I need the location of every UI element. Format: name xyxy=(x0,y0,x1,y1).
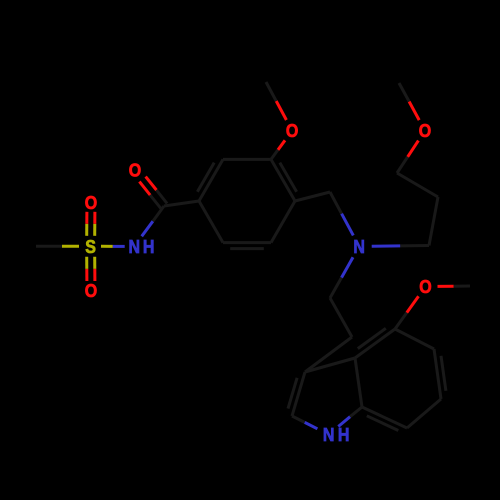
svg-text:O: O xyxy=(419,276,431,297)
svg-text:O: O xyxy=(129,159,141,180)
svg-text:N: N xyxy=(353,236,365,257)
svg-text:O: O xyxy=(286,120,298,141)
svg-text:O: O xyxy=(419,120,431,141)
svg-text:O: O xyxy=(85,192,97,213)
svg-text:N: N xyxy=(129,236,141,257)
svg-text:H: H xyxy=(338,424,350,445)
svg-text:H: H xyxy=(143,236,155,257)
svg-text:S: S xyxy=(85,236,96,257)
svg-text:O: O xyxy=(85,280,97,301)
svg-text:N: N xyxy=(323,424,335,445)
